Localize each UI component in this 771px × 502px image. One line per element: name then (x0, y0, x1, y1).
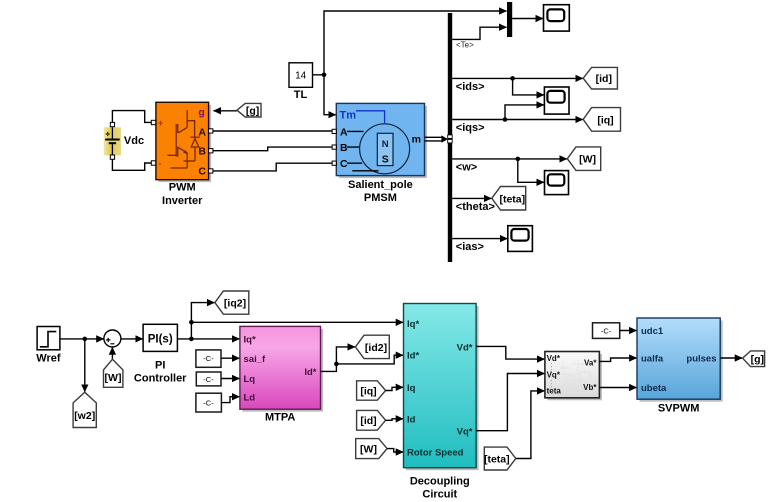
svg-text:m: m (412, 134, 421, 146)
svg-text:B: B (340, 142, 348, 154)
svg-text:TL: TL (294, 89, 308, 101)
svg-text:[iq]: [iq] (360, 385, 376, 397)
svg-text:[W]: [W] (579, 154, 596, 166)
svg-text:Circuit: Circuit (422, 488, 457, 500)
svg-text:Rotor Speed: Rotor Speed (407, 448, 464, 459)
svg-text:PI: PI (155, 360, 165, 372)
svg-text:Va*: Va* (584, 359, 597, 368)
svg-text:Tm: Tm (340, 110, 357, 122)
svg-text:<theta>: <theta> (456, 201, 495, 213)
svg-text:Vd*: Vd* (457, 343, 473, 354)
svg-text:Vdc: Vdc (124, 135, 144, 147)
svg-text:C: C (198, 166, 206, 178)
svg-text:[id]: [id] (596, 73, 612, 85)
svg-text:PWM: PWM (169, 182, 196, 194)
svg-text:-C-: -C- (203, 399, 214, 408)
svg-text:Wref: Wref (36, 353, 61, 365)
svg-text:A: A (198, 126, 206, 138)
svg-text:Decoupling: Decoupling (410, 475, 470, 487)
svg-text:-C-: -C- (601, 326, 612, 335)
svg-text:[g]: [g] (246, 105, 259, 117)
svg-text:pulses: pulses (686, 354, 716, 365)
svg-text:PI(s): PI(s) (148, 333, 173, 345)
svg-text:-C-: -C- (203, 375, 214, 384)
svg-text:[iq]: [iq] (597, 114, 613, 126)
svg-text:C: C (340, 158, 348, 170)
svg-text:Id: Id (407, 414, 416, 425)
svg-text:-C-: -C- (203, 354, 214, 363)
svg-text:N: N (382, 139, 389, 150)
svg-text:[id2]: [id2] (365, 342, 387, 354)
svg-text:Iq*: Iq* (244, 334, 256, 345)
svg-text:Inverter: Inverter (162, 195, 203, 207)
svg-text:[g]: [g] (751, 353, 764, 365)
svg-text:Iq*: Iq* (407, 319, 419, 330)
svg-text:Salient_pole: Salient_pole (348, 179, 413, 191)
svg-text:Lq: Lq (244, 374, 256, 385)
svg-text:<ids>: <ids> (456, 81, 485, 93)
svg-text:<w>: <w> (456, 161, 477, 173)
svg-text:<ias>: <ias> (456, 241, 484, 253)
svg-text:ualfa: ualfa (641, 354, 664, 365)
svg-text:<iqs>: <iqs> (456, 122, 485, 134)
svg-text:Vd*: Vd* (547, 354, 561, 363)
svg-text:[teta]: [teta] (499, 193, 525, 205)
svg-text:Ld: Ld (244, 392, 256, 403)
svg-text:Vq*: Vq* (547, 371, 561, 380)
svg-text:[teta]: [teta] (484, 454, 510, 466)
svg-text:<Te>: <Te> (456, 41, 474, 50)
svg-text:udc1: udc1 (641, 326, 664, 337)
svg-text:[W]: [W] (105, 372, 122, 384)
svg-text:teta: teta (547, 387, 562, 396)
svg-text:Iq: Iq (407, 383, 416, 394)
svg-text:+: + (158, 118, 163, 128)
svg-text:SVPWM: SVPWM (658, 403, 700, 415)
svg-text:Id*: Id* (407, 351, 419, 362)
svg-text:[w2]: [w2] (74, 410, 95, 422)
svg-text:MTPA: MTPA (265, 412, 295, 424)
svg-text:B: B (198, 145, 206, 157)
svg-text:Vq*: Vq* (457, 426, 473, 437)
svg-text:ubeta: ubeta (641, 383, 667, 394)
svg-text:Vb*: Vb* (583, 383, 597, 392)
svg-text:Controller: Controller (134, 373, 187, 385)
svg-text:S: S (382, 154, 389, 166)
svg-text:[W]: [W] (360, 444, 377, 456)
svg-text:[iq2]: [iq2] (224, 298, 246, 310)
svg-text:g: g (198, 106, 204, 118)
svg-text:-: - (159, 159, 162, 169)
svg-text:[id]: [id] (360, 415, 376, 427)
svg-text:PMSM: PMSM (364, 192, 397, 204)
svg-text:Id*: Id* (304, 367, 316, 378)
svg-text:14: 14 (295, 71, 307, 82)
svg-text:A: A (340, 126, 348, 138)
svg-text:sai_f: sai_f (244, 354, 266, 365)
